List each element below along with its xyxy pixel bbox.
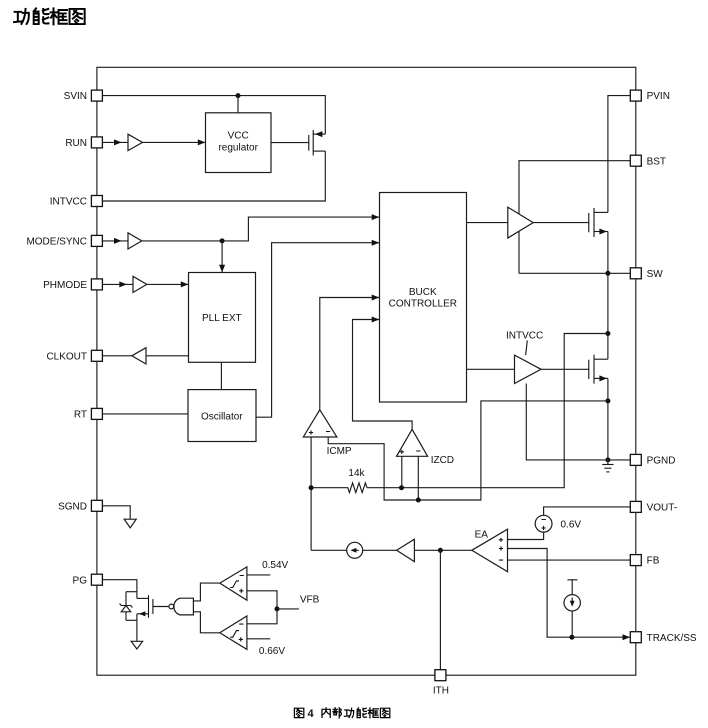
wire NAND input2 from 0.66V comparator <box>193 612 219 633</box>
svg-text:ITH: ITH <box>433 685 449 696</box>
pin RT <box>74 408 103 420</box>
node ITH junction dot <box>438 548 443 553</box>
wire MODE/SYNC buffer output <box>142 217 380 241</box>
wire PVIN to top FET drain <box>608 96 630 213</box>
comparator CMP1 0.54V <box>220 567 247 600</box>
wire SW rail <box>519 272 630 274</box>
svg-text:PGND: PGND <box>647 456 676 467</box>
wire SW sense branch to 14k line <box>367 334 608 488</box>
arrow into BUCK input3 <box>372 295 380 301</box>
buffer A5 ITH buffer <box>397 539 415 561</box>
pin PVIN <box>630 90 670 102</box>
arrow into VCC regulator <box>198 139 206 145</box>
wire SGND pin to ground <box>103 506 131 519</box>
svg-text:PLL EXT: PLL EXT <box>202 313 242 324</box>
wire SW down to bottom FET drain <box>607 273 609 359</box>
node SW sense junction dot <box>605 331 610 336</box>
wire RT pin to Oscillator <box>103 413 189 415</box>
svg-text:0.6V: 0.6V <box>561 520 582 531</box>
wire PGND pin connection <box>608 459 630 461</box>
transistor Q1 pass FET <box>309 130 326 156</box>
wire IZCD minus input <box>417 456 419 500</box>
node TRACK/SS junction dot <box>569 635 574 640</box>
arrow into PLL EXT top <box>219 265 225 273</box>
driver U2 top gate driver <box>508 207 533 238</box>
svg-text:MODE/SYNC: MODE/SYNC <box>26 237 87 248</box>
wire buffer to VCC regulator <box>143 141 206 143</box>
label INTVCC supply leader <box>526 341 528 356</box>
wire source to gm buffer <box>363 549 397 551</box>
block VCC regulator <box>206 113 272 173</box>
svg-text:INTVCC: INTVCC <box>506 331 543 342</box>
svg-text:4: 4 <box>308 708 315 720</box>
wire MODE/SYNC pin to buffer <box>103 240 129 242</box>
transistor M2 bottom power NMOS <box>589 355 608 384</box>
wire Oscillator output to BUCK input2 <box>256 243 380 418</box>
wire BUCK to bottom gate driver <box>467 368 515 370</box>
svg-text:EA: EA <box>475 530 489 541</box>
svg-text:ICMP: ICMP <box>327 446 352 457</box>
arrow into BUCK input1 <box>372 214 380 220</box>
node IZCD minus junction dot <box>416 498 421 503</box>
wire PHMODE buffer to PLL EXT <box>147 283 189 285</box>
source V1 0.6V reference <box>535 515 552 532</box>
svg-text:Oscillator: Oscillator <box>201 412 243 423</box>
buffer A3 PHMODE <box>133 276 147 292</box>
wire VFB to comparator inputs <box>247 591 277 624</box>
ground PGND earth symbol <box>602 460 613 472</box>
wire top FET source to SW <box>607 232 609 274</box>
arrow into TRACK/SS pin <box>623 634 631 640</box>
wire EA minus to FB pin <box>508 559 631 561</box>
wire SVIN dot down to VCC regulator <box>237 96 239 113</box>
buffer A1 RUN <box>128 134 143 150</box>
svg-text:SW: SW <box>647 269 664 280</box>
node 14k IZCD junction dot <box>399 485 404 490</box>
arrow PHMODE into buffer <box>119 281 127 287</box>
svg-text:0.54V: 0.54V <box>262 560 288 571</box>
pin SVIN <box>64 90 103 102</box>
pin VOUT- <box>630 501 677 513</box>
arrow into BUCK input4 <box>372 317 380 323</box>
block BUCK CONTROLLER <box>380 193 467 403</box>
pin ITH <box>433 670 449 697</box>
ground SGND symbol <box>124 519 136 528</box>
svg-text:VFB: VFB <box>300 595 320 606</box>
svg-text:BST: BST <box>647 156 666 167</box>
diode D1 zener clamp <box>120 592 137 621</box>
title 功能框图 <box>14 8 85 24</box>
wire bottom driver return rail to PGND <box>526 384 608 460</box>
svg-text:VCC: VCC <box>228 131 249 142</box>
wire driver to top FET gate <box>533 222 589 224</box>
transistor M1 top power NMOS <box>589 208 608 237</box>
wire NAND input1 from 0.54V comparator <box>193 583 219 601</box>
wire driver to bottom FET gate <box>541 368 589 370</box>
wire IZCD output to BUCK input4 <box>353 320 413 430</box>
node PGND junction dot <box>605 457 610 462</box>
svg-text:CLKOUT: CLKOUT <box>46 351 87 362</box>
comparator IZCD <box>397 429 428 456</box>
wire VOUT- pin to 0.6V reference <box>544 507 631 515</box>
wire PHMODE pin to buffer <box>103 283 134 285</box>
wire EA plus1 from 0.6V reference <box>508 532 544 539</box>
svg-text:RT: RT <box>74 410 87 421</box>
gate U4 NAND <box>169 598 193 615</box>
wire junction down to PLL EXT <box>221 241 223 273</box>
pin INTVCC <box>50 196 103 208</box>
wire PG FET source to ground <box>136 614 138 642</box>
svg-text:CONTROLLER: CONTROLLER <box>389 298 457 309</box>
svg-text:PHMODE: PHMODE <box>43 280 87 291</box>
svg-text:0.66V: 0.66V <box>259 646 285 657</box>
wire buffer to EA output node <box>414 549 471 551</box>
pin MODE/SYNC <box>26 235 102 247</box>
source I2 TRACK/SS charge current <box>564 580 580 637</box>
svg-text:BUCK: BUCK <box>409 287 437 298</box>
svg-text:VOUT-: VOUT- <box>647 503 678 514</box>
wire PLL EXT to CLKOUT buffer <box>146 355 189 357</box>
pin SGND <box>58 500 102 512</box>
svg-text:FB: FB <box>647 556 660 567</box>
wire SVIN horizontal to pass FET drain <box>103 96 326 135</box>
comparator ICMP <box>303 410 337 437</box>
arrow RUN into buffer <box>114 139 122 145</box>
transistor Q2 PG open drain NMOS <box>137 595 153 618</box>
wire VFB stub <box>277 608 299 610</box>
pin SW <box>630 268 663 280</box>
chip boundary border <box>97 67 636 675</box>
svg-text:14k: 14k <box>348 468 365 479</box>
resistor R1 14k <box>312 483 367 493</box>
wire NAND output to PG FET gate <box>153 606 169 608</box>
wire pass FET source to INTVCC <box>103 151 326 201</box>
node current sense junction dot <box>605 398 610 403</box>
block Oscillator <box>188 390 256 442</box>
svg-text:regulator: regulator <box>218 142 258 153</box>
node SW junction dot <box>605 271 610 276</box>
arrow into PLL EXT left <box>181 281 189 287</box>
svg-text:PG: PG <box>73 575 88 586</box>
pin CLKOUT <box>46 350 102 362</box>
pin PHMODE <box>43 279 102 291</box>
wire IZCD plus input <box>401 456 403 487</box>
arrow into BUCK input2 <box>372 240 380 246</box>
wire VCC regulator output to pass FET gate <box>271 142 309 144</box>
pin RUN <box>65 137 102 149</box>
wire PLL EXT to Oscillator <box>220 362 222 389</box>
pin FB <box>630 555 659 567</box>
wire ITH node down to ITH pin <box>439 550 441 669</box>
node VFB junction dot <box>275 606 280 611</box>
driver U3 bottom gate driver <box>515 355 542 383</box>
pin TRACK/SS <box>630 632 697 644</box>
wire 0.66V reference stub <box>247 638 270 640</box>
svg-text:TRACK/SS: TRACK/SS <box>647 633 697 644</box>
svg-text:SGND: SGND <box>58 501 87 512</box>
wire BST pin to driver rail <box>519 161 630 274</box>
op-amp EA error amplifier <box>472 529 508 572</box>
svg-text:SVIN: SVIN <box>64 91 87 102</box>
wire ICMP plus input <box>310 437 312 550</box>
wire RUN pin to buffer <box>103 141 129 143</box>
source I1 slope compensation current <box>347 542 363 558</box>
wire 0.54V reference stub <box>247 574 270 576</box>
node 14k ICMP junction dot <box>309 485 314 490</box>
pin BST <box>630 155 666 167</box>
comparator CMP2 0.66V <box>220 616 247 649</box>
wire ICMP plus over to slope comp source <box>311 549 347 551</box>
pin PGND <box>630 454 675 466</box>
arrow MODE/SYNC into buffer <box>114 238 122 244</box>
pin PG <box>73 574 103 586</box>
wire ICMP output to BUCK input3 <box>320 298 380 410</box>
wire CLKOUT buffer to pin <box>103 355 132 357</box>
wire current sense to ICMP minus <box>328 401 608 500</box>
wire EA plus2 to TRACK/SS <box>508 549 572 638</box>
node MODE/SYNC junction dot <box>220 238 225 243</box>
svg-text:RUN: RUN <box>65 138 87 149</box>
wire bottom FET source to PGND <box>607 378 609 460</box>
block PLL EXT <box>189 273 256 363</box>
wire PG pin to open drain FET <box>103 580 137 599</box>
caption 图 4 内部功能框图 <box>294 708 389 720</box>
svg-text:INTVCC: INTVCC <box>50 197 87 208</box>
buffer A2 MODE/SYNC <box>128 233 142 249</box>
wire TRACK/SS to pin <box>572 636 630 638</box>
svg-text:PVIN: PVIN <box>647 91 670 102</box>
ground PG symbol <box>131 641 142 649</box>
wire BUCK to top gate driver <box>467 222 508 224</box>
svg-text:IZCD: IZCD <box>431 455 454 466</box>
buffer A4 CLKOUT <box>132 348 146 364</box>
node SVIN junction dot <box>236 93 241 98</box>
